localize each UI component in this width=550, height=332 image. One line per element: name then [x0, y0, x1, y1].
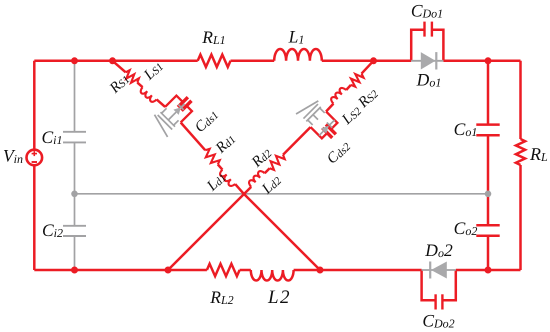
svg-text:L2: L2	[267, 287, 291, 308]
